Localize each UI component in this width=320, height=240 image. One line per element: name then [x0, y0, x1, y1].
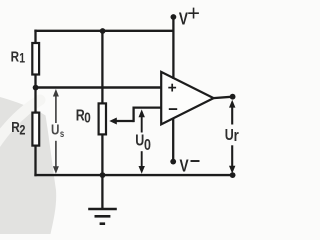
svg-text:r: r — [234, 127, 239, 146]
node: bottom rail right end — [230, 172, 236, 178]
label Ur — [225, 127, 239, 146]
wire: R0 bottom lead to bottom rail — [101, 134, 103, 175]
label R2 — [11, 119, 25, 138]
wire: middle rail (node A to op-amp + input) — [34, 86, 161, 88]
wire: V+ stub to op-amp top — [172, 17, 174, 79]
wire: R2 top lead — [34, 88, 36, 113]
wire: R1 top lead — [34, 30, 36, 43]
op-amp U1 — [161, 72, 213, 125]
terminal V- — [170, 159, 176, 165]
svg-text:0: 0 — [84, 109, 91, 126]
svg-text:U: U — [225, 127, 234, 145]
voltage arrow Us — [53, 89, 59, 174]
svg-text:2: 2 — [19, 122, 25, 138]
potentiometer R0 — [99, 103, 106, 134]
svg-text:R: R — [11, 119, 20, 136]
node: output — [230, 94, 236, 100]
op-amp - input mark — [169, 108, 177, 110]
node: top rail / R0 branch junction — [100, 28, 106, 34]
label U0 — [135, 132, 151, 154]
svg-text:s: s — [60, 128, 64, 139]
svg-text:U: U — [135, 132, 144, 150]
svg-text:−: − — [190, 151, 201, 171]
wire: R2 bottom lead to bottom rail — [34, 146, 36, 177]
svg-text:+: + — [187, 1, 200, 26]
wire: R1 bottom lead to node A — [34, 75, 36, 89]
ground — [88, 175, 117, 224]
op-amp + input mark — [168, 84, 176, 92]
label R0 — [76, 107, 91, 126]
wire: top rail from R1 top to V+ stub — [34, 30, 174, 32]
svg-text:1: 1 — [19, 50, 25, 66]
svg-text:R: R — [11, 48, 20, 65]
svg-text:V: V — [180, 157, 190, 176]
node A (junction R1/R2/+input) — [33, 85, 39, 91]
wiper arrow of R0 — [109, 118, 133, 125]
voltage arrow Ur — [229, 100, 235, 174]
label V- — [180, 151, 201, 176]
resistor R1 — [32, 43, 39, 75]
wire: op-amp bottom to V- terminal — [172, 118, 174, 161]
label Us — [51, 121, 64, 139]
node: bottom rail / ground junction — [100, 172, 106, 178]
wire: bottom rail — [34, 174, 232, 176]
resistor R2 — [32, 113, 39, 146]
wire: op-amp output stub — [213, 97, 232, 98]
svg-text:U: U — [51, 121, 59, 138]
label R1 — [11, 48, 26, 66]
label V+ — [179, 1, 200, 29]
voltage arrow U0 — [139, 109, 145, 173]
terminal V+ — [171, 14, 177, 20]
wire: vertical branch from top rail to R0 top — [101, 31, 103, 104]
svg-text:0: 0 — [144, 137, 151, 155]
wire: wiper step up to op-amp - input — [134, 108, 162, 123]
